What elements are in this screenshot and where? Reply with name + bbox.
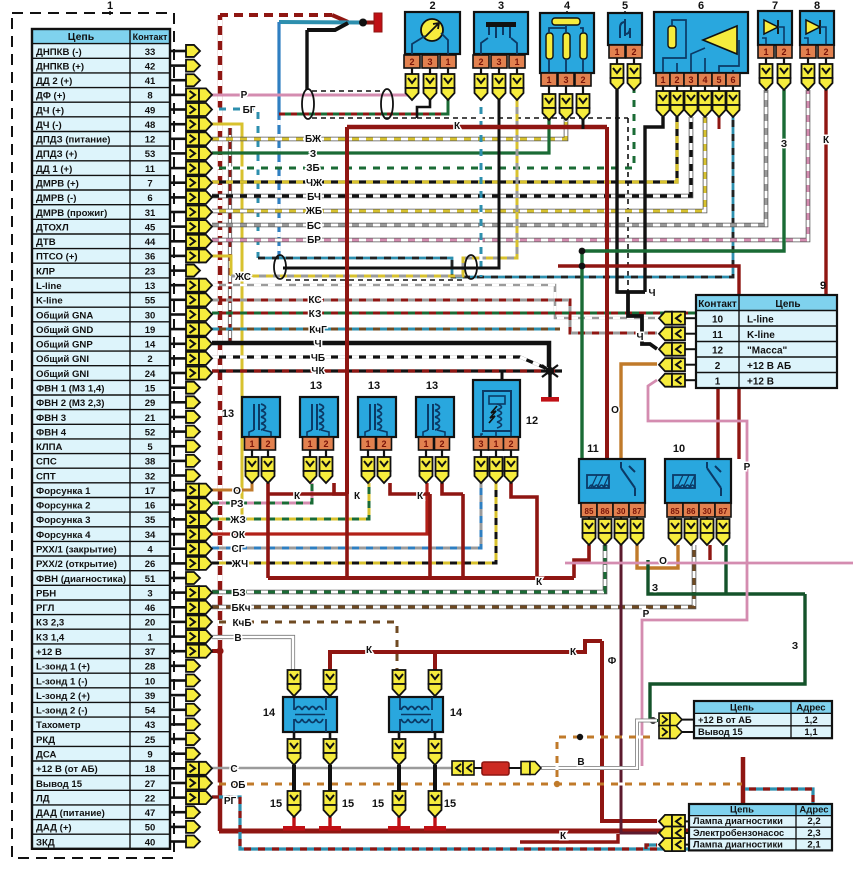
connector pair [659, 327, 672, 340]
svg-text:37: 37 [145, 647, 156, 658]
svg-text:РГ: РГ [224, 796, 237, 807]
connector arrow [186, 470, 200, 482]
svg-text:Форсунка 2: Форсунка 2 [36, 501, 91, 512]
svg-text:11: 11 [712, 330, 723, 341]
svg-text:Адрес: Адрес [799, 805, 828, 816]
ECU pin row 23 connector [170, 372, 186, 375]
ECU pin row 5 connector [170, 108, 186, 111]
svg-text:5: 5 [716, 75, 721, 85]
connector arrow [186, 265, 200, 277]
svg-text:СПС: СПС [36, 457, 57, 468]
svg-text:БЧ: БЧ [307, 192, 321, 203]
svg-text:ЧК: ЧК [311, 366, 325, 377]
svg-text:55: 55 [145, 296, 156, 307]
svg-text:47: 47 [145, 808, 156, 819]
svg-text:12: 12 [526, 415, 538, 427]
svg-text:ДМРВ (+): ДМРВ (+) [36, 179, 79, 190]
svg-text:Р: Р [744, 462, 751, 473]
svg-text:2,1: 2,1 [807, 839, 821, 850]
junction node [554, 781, 560, 787]
pin 2 [404, 55, 420, 68]
connector [713, 91, 726, 105]
sensor 8 symbol [806, 20, 820, 34]
svg-text:19: 19 [145, 325, 156, 336]
svg-text:2: 2 [439, 439, 444, 449]
connector [493, 74, 506, 88]
svg-text:22: 22 [145, 793, 156, 804]
pin 30 [613, 503, 629, 517]
svg-text:КЗ: КЗ [309, 309, 322, 320]
svg-text:2,3: 2,3 [807, 828, 820, 839]
svg-text:БГ: БГ [243, 105, 256, 116]
connector pair [186, 249, 199, 262]
svg-text:4: 4 [564, 0, 571, 12]
pin 85 [667, 503, 683, 517]
ground (spark plug) [424, 826, 446, 831]
svg-text:Контакт: Контакт [133, 32, 168, 42]
connector pair [186, 176, 199, 189]
wire black into splice [307, 23, 348, 30]
shield capsule [381, 89, 393, 119]
svg-text:10: 10 [145, 676, 156, 687]
wire power bus K vertical x220 [218, 15, 223, 831]
connector [246, 457, 259, 471]
svg-text:ЧБ: ЧБ [311, 353, 325, 364]
component 6 box [654, 12, 748, 73]
wire Z green comp7 pin2 to relay11 [582, 90, 784, 459]
wire O relay11-87 to relay10-85 [637, 545, 678, 568]
svg-text:Ч: Ч [636, 332, 643, 343]
connector pair [186, 601, 199, 614]
svg-text:2: 2 [781, 47, 786, 57]
wire OB branch to Vyvod15 [557, 737, 657, 784]
ECU pin row 9 connector [170, 167, 186, 170]
connector pair [186, 132, 199, 145]
component 2 box [405, 12, 460, 54]
svg-text:ДАД (+): ДАД (+) [36, 823, 72, 834]
svg-text:54: 54 [145, 706, 156, 717]
wire V white to coil1 [212, 637, 293, 672]
svg-text:ДНПКВ (+): ДНПКВ (+) [36, 61, 84, 72]
wire riser right of bottom bus [741, 757, 746, 833]
svg-text:1: 1 [715, 377, 721, 388]
svg-text:30: 30 [617, 507, 626, 516]
svg-text:13: 13 [368, 380, 380, 392]
connector arrow [186, 572, 200, 584]
connector [560, 94, 573, 108]
connector X1 dashed outline box 1 [12, 13, 174, 858]
connector pair [186, 308, 199, 321]
wire [650, 719, 658, 722]
wire KZ red-green long [212, 312, 790, 315]
connector [699, 91, 712, 105]
wire Ch black to ground node [212, 343, 549, 371]
splice X marks [542, 365, 558, 377]
svg-text:6: 6 [698, 0, 704, 12]
wire BG white-blue [212, 109, 258, 258]
wire TPS pin2 stub [582, 117, 585, 129]
pin 1 [758, 45, 774, 58]
wire comp3 pin2 teal down to shield bundle [480, 100, 483, 277]
connector pair [186, 118, 199, 131]
wire KS red-grey K-line [212, 300, 657, 333]
svg-text:РКД: РКД [36, 735, 55, 746]
svg-text:К: К [354, 491, 361, 502]
svg-text:В: В [234, 633, 241, 644]
svg-text:БКч: БКч [231, 603, 250, 614]
svg-text:Цепь: Цепь [68, 31, 95, 43]
svg-text:23: 23 [145, 266, 156, 277]
svg-text:Общий GNI: Общий GNI [36, 369, 89, 380]
svg-text:РХХ/2 (открытие): РХХ/2 (открытие) [36, 559, 117, 570]
wire module 12 top to ground node [501, 371, 504, 380]
svg-text:З: З [310, 149, 316, 160]
svg-text:48: 48 [145, 120, 156, 131]
svg-text:15: 15 [342, 798, 354, 810]
ECU pin row 20 connector [170, 328, 186, 331]
connector pair [186, 645, 199, 658]
svg-text:6: 6 [730, 75, 735, 85]
wire HT lead [433, 765, 437, 791]
svg-text:К: К [823, 135, 830, 146]
ECU pin row 12 connector [170, 211, 186, 214]
wire K riser x430 [428, 494, 432, 578]
connector [420, 457, 433, 471]
svg-text:1: 1 [546, 75, 551, 85]
svg-text:Цепь: Цепь [730, 805, 754, 816]
connector pair [186, 279, 199, 292]
wire splice bend red [332, 15, 348, 22]
svg-text:18: 18 [145, 764, 156, 775]
pin 87 [629, 503, 645, 517]
svg-text:52: 52 [145, 427, 156, 438]
connector pair [186, 484, 199, 497]
svg-text:ПТСО (+): ПТСО (+) [36, 252, 78, 263]
connector [288, 791, 301, 805]
ECU pin row 19 connector [170, 313, 186, 316]
wire yellow vertical DCh- down to ZhZ [212, 124, 242, 519]
svg-text:3: 3 [427, 57, 432, 67]
pin 1 [419, 437, 434, 450]
wire coil2 K riser [433, 652, 437, 672]
svg-text:КчГ: КчГ [309, 325, 327, 336]
component 8 box [800, 11, 834, 45]
ECU pin row 36 connector [170, 562, 186, 565]
connector pair [659, 838, 672, 851]
svg-text:21: 21 [145, 413, 156, 424]
MAF 6 symbol [703, 26, 737, 54]
svg-text:41: 41 [145, 76, 156, 87]
wire K red to relay10 [558, 266, 739, 459]
connector arrow [186, 806, 200, 818]
junction node [359, 19, 367, 27]
pin 3 [684, 73, 698, 86]
ECU pin row 31 connector [170, 489, 186, 492]
ignition module 12 [473, 380, 520, 437]
svg-text:К: К [366, 645, 373, 656]
ECU pin row 21 connector [170, 342, 186, 345]
svg-text:2: 2 [823, 47, 828, 57]
svg-text:Форсунка 1: Форсунка 1 [36, 486, 91, 497]
connector [288, 739, 301, 753]
svg-text:2: 2 [429, 0, 435, 12]
ECU pin row 7 connector [170, 138, 186, 141]
wire BG dashed run to MAF pin6 [258, 117, 733, 277]
component 7 box [758, 11, 792, 45]
svg-text:32: 32 [145, 471, 156, 482]
wire K jumper [268, 492, 347, 496]
connector [475, 457, 488, 471]
wire shielded pair to sensor2 pin1 [279, 99, 448, 114]
svg-text:7: 7 [772, 0, 778, 12]
svg-text:L-зонд 2 (+): L-зонд 2 (+) [36, 691, 90, 702]
wire S grey to fuse [212, 767, 452, 770]
pin 1 [541, 73, 557, 86]
ECU pin row 17 connector [170, 284, 186, 287]
svg-text:46: 46 [145, 603, 156, 614]
wire K riser x347 [345, 127, 349, 494]
injector 13 [416, 397, 454, 437]
connector [304, 457, 317, 471]
pin 85 [581, 503, 597, 517]
connector [324, 670, 337, 684]
pin 2 [626, 45, 642, 58]
pin 2 [319, 437, 334, 450]
svg-text:1: 1 [107, 0, 113, 12]
svg-text:86: 86 [601, 507, 610, 516]
diagnostics table [689, 804, 832, 850]
svg-text:30: 30 [145, 310, 156, 321]
sensor 4 symbol [552, 18, 580, 25]
connector [583, 519, 596, 533]
wire +12V row to spine [212, 649, 221, 653]
ground (spark plug) [388, 826, 410, 831]
shield capsule [302, 89, 314, 119]
svg-text:24: 24 [145, 369, 156, 380]
svg-text:КЛПА: КЛПА [36, 442, 62, 453]
svg-text:ДАД (питание): ДАД (питание) [36, 808, 105, 819]
connector arrow [186, 45, 200, 57]
svg-text:Р: Р [241, 90, 248, 101]
sensor 5 symbol [620, 19, 630, 38]
wire top run to splice [220, 13, 332, 17]
wire BR white-pink to comp8 pin1 [212, 90, 808, 240]
wire white-red vertical [228, 128, 232, 343]
svg-text:ДД 1 (+): ДД 1 (+) [36, 164, 72, 175]
svg-text:РЗ: РЗ [231, 499, 244, 510]
svg-text:Вывод 15: Вывод 15 [36, 779, 83, 790]
injector 13 [242, 397, 280, 437]
svg-text:Ф: Ф [608, 656, 617, 667]
svg-text:1: 1 [614, 47, 619, 57]
ECU pin row 43 connector [170, 664, 186, 667]
wire ChK black-red [212, 369, 562, 372]
svg-text:27: 27 [145, 779, 156, 790]
svg-text:1: 1 [307, 439, 312, 449]
wire lead to +12 terminal [360, 21, 374, 25]
svg-text:Лампа диагностики: Лампа диагностики [693, 839, 783, 849]
svg-text:О: О [611, 405, 619, 416]
svg-text:ДТВ: ДТВ [36, 237, 56, 248]
connector [615, 519, 628, 533]
connector arrow [186, 660, 200, 672]
svg-text:15: 15 [372, 798, 384, 810]
svg-text:ДЧ (+): ДЧ (+) [36, 105, 64, 116]
junction node [579, 263, 586, 270]
wire ChB black-white [212, 357, 550, 370]
svg-text:З: З [781, 139, 787, 150]
svg-text:12: 12 [712, 346, 724, 357]
pin 3 [558, 73, 574, 86]
svg-text:4: 4 [702, 75, 707, 85]
connector pair [186, 323, 199, 336]
connector [701, 519, 714, 533]
ECU pin row 26 connector [170, 416, 186, 419]
wire ZhB yellow-white to MAF pin4 [212, 117, 705, 211]
ECU pin row 2 connector [170, 64, 186, 67]
svg-text:КчБ: КчБ [232, 618, 251, 629]
shield capsule [274, 255, 286, 279]
wire HT lead [292, 765, 296, 791]
svg-text:5: 5 [622, 0, 628, 12]
svg-text:25: 25 [145, 735, 156, 746]
wire ZhCh yellow-black to module12 pin1 [212, 483, 496, 563]
pin 2 [575, 73, 591, 86]
svg-text:+12 В от АБ: +12 В от АБ [698, 715, 752, 725]
svg-text:43: 43 [145, 720, 156, 731]
svg-text:РХХ/1 (закрытие): РХХ/1 (закрытие) [36, 545, 117, 556]
connector pair [659, 312, 672, 325]
connector arrow [186, 674, 200, 686]
svg-text:З: З [652, 583, 658, 594]
svg-text:42: 42 [145, 61, 156, 72]
svg-text:БР: БР [307, 235, 321, 246]
connector [820, 64, 833, 78]
ECU pin row 42 connector [170, 650, 186, 653]
pin 87 [715, 503, 731, 517]
svg-text:Общий GNP: Общий GNP [36, 340, 93, 351]
svg-text:БС: БС [307, 221, 321, 232]
ECU pin row 45 connector [170, 694, 186, 697]
svg-text:17: 17 [145, 486, 156, 497]
svg-text:L-зонд 2 (-): L-зонд 2 (-) [36, 706, 88, 717]
connector arrow [186, 689, 200, 701]
svg-text:ЖС: ЖС [234, 272, 251, 283]
svg-text:СГ: СГ [232, 544, 245, 555]
connector pair [659, 815, 672, 828]
svg-text:1: 1 [805, 47, 810, 57]
wire K short bottom segment [520, 834, 618, 842]
svg-text:44: 44 [145, 237, 156, 248]
svg-text:ФВН 3: ФВН 3 [36, 413, 66, 424]
ECU pin row 55 connector [170, 840, 186, 843]
svg-text:ДМРВ (прожиг): ДМРВ (прожиг) [36, 208, 107, 219]
wire BZ white-green to relay11 pin86 [212, 545, 605, 592]
wire capsule2 bottom dashed [286, 279, 465, 281]
ECU pin row 24 connector [170, 386, 186, 389]
ECU pin row 4 connector [170, 94, 186, 97]
connector pair [186, 498, 199, 511]
connector pair [186, 220, 199, 233]
svg-text:ДФ (+): ДФ (+) [36, 91, 66, 102]
wire RG to lamp 2,1 [646, 845, 657, 849]
ECU pin row 52 connector [170, 796, 186, 799]
svg-text:2: 2 [508, 439, 513, 449]
pin 2 [261, 437, 276, 450]
connector pair [186, 352, 199, 365]
pin 1 [489, 437, 504, 450]
wire P pink from table9 [642, 380, 747, 766]
ECU pin row 44 connector [170, 679, 186, 682]
ECU pin row 18 connector [170, 298, 186, 301]
svg-text:В: В [577, 757, 584, 768]
pin 1 [609, 45, 625, 58]
ECU pin row 6 connector [170, 123, 186, 126]
svg-text:2: 2 [147, 354, 152, 365]
svg-text:2: 2 [409, 57, 414, 67]
svg-text:+12 В: +12 В [747, 377, 774, 388]
svg-text:РБН: РБН [36, 588, 56, 599]
svg-text:L-line: L-line [36, 281, 62, 292]
svg-text:1: 1 [514, 57, 519, 67]
wire V white after fuse [541, 721, 657, 769]
svg-text:36: 36 [145, 252, 156, 263]
svg-text:Тахометр: Тахометр [36, 720, 81, 731]
wire spark ground lead [433, 817, 436, 826]
svg-text:39: 39 [145, 691, 156, 702]
ECU pin row 27 connector [170, 430, 186, 433]
svg-text:L-зонд 1 (-): L-зонд 1 (-) [36, 676, 88, 687]
svg-text:13: 13 [426, 380, 438, 392]
svg-text:35: 35 [145, 515, 156, 526]
wire K riser x463 [461, 494, 465, 578]
pin 5 [712, 73, 726, 86]
svg-text:3: 3 [563, 75, 568, 85]
wire inj1 pin2 down [266, 483, 270, 578]
svg-text:1: 1 [249, 439, 254, 449]
ignition coil 14 [283, 697, 337, 732]
svg-text:ДЧ (-): ДЧ (-) [36, 120, 62, 131]
svg-text:БЖ: БЖ [305, 134, 322, 145]
svg-text:85: 85 [671, 507, 680, 516]
svg-text:3: 3 [688, 75, 693, 85]
svg-text:Ч: Ч [648, 288, 655, 299]
connector pair [186, 630, 199, 643]
wire module12 pin2 K [511, 483, 537, 578]
sensor 2 symbol [421, 19, 443, 41]
wire K injector bus [268, 576, 574, 580]
wire capsule top dashed [312, 90, 385, 92]
junction node [216, 647, 223, 654]
connector [442, 74, 455, 88]
connector [324, 739, 337, 753]
wire HT lead [397, 765, 401, 791]
connector pair [186, 191, 199, 204]
svg-text:49: 49 [145, 105, 156, 116]
wire ground lead [548, 371, 551, 397]
svg-text:Р: Р [643, 609, 650, 620]
svg-text:РГЛ: РГЛ [36, 603, 55, 614]
svg-text:38: 38 [145, 457, 156, 468]
connector pair [186, 367, 199, 380]
svg-text:8: 8 [147, 91, 152, 102]
connector pair [186, 206, 199, 219]
svg-text:ДПДЗ (питание): ДПДЗ (питание) [36, 135, 111, 146]
wire L-line grey [212, 285, 657, 318]
ECU pin row 40 connector [170, 621, 186, 624]
wire K into relay 11 [605, 127, 609, 459]
svg-text:О: О [659, 556, 667, 567]
